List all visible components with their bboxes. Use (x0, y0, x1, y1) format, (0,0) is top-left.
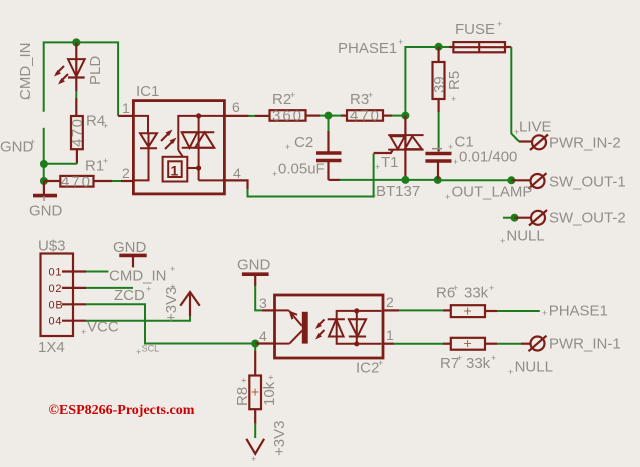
net label PHASE1 top (338, 37, 403, 57)
svg-text:10k: 10k (261, 381, 278, 406)
svg-text:04: 04 (49, 316, 63, 328)
svg-text:+: + (464, 303, 472, 319)
junction node R3/T1 (401, 112, 409, 120)
pin 3 label IC2 (259, 295, 267, 311)
svg-text:0.05uF: 0.05uF (278, 161, 325, 178)
svg-text:2: 2 (122, 165, 130, 181)
wire IC1 pin6 to R2 (224, 115, 269, 117)
svg-text:+: + (81, 327, 86, 337)
svg-text:+: + (26, 93, 31, 103)
ground symbol GND bottom-left (29, 181, 63, 220)
svg-text:+: + (285, 142, 290, 152)
junction node SW_OUT-1 (507, 176, 515, 184)
ground symbol GND near connector (113, 239, 147, 267)
svg-text:33k: 33k (466, 355, 491, 372)
net label OUT_LAMP (445, 184, 532, 203)
svg-text:OUT_LAMP: OUT_LAMP (452, 184, 533, 201)
svg-text:+: + (170, 264, 175, 274)
wire CMD_IN top (44, 42, 118, 116)
svg-text:+: + (497, 19, 502, 29)
svg-text:C2: C2 (294, 134, 313, 151)
svg-text:FUSE: FUSE (455, 21, 495, 38)
svg-text:SCL: SCL (142, 344, 160, 354)
svg-text:+3V3: +3V3 (271, 421, 288, 456)
svg-text:+: + (489, 283, 494, 293)
wire SW_OUT-2 stub (503, 217, 515, 219)
svg-text:PHASE1: PHASE1 (549, 303, 608, 320)
svg-text:0.01/400: 0.01/400 (459, 149, 517, 166)
IC1 zero-cross box with 1 (163, 157, 199, 182)
net label CMD_IN bottom (109, 264, 175, 285)
svg-text:470: 470 (61, 174, 92, 191)
wire PHASE1 to fuse (405, 47, 438, 116)
wire IC1 pin4 to T1 gate (224, 150, 393, 197)
supply symbol +3V3 down arrow (246, 421, 288, 464)
svg-text:LIVE: LIVE (519, 119, 552, 136)
capacitor C2 (272, 116, 342, 180)
junction node C1 bottom (434, 176, 442, 184)
svg-text:GND: GND (113, 239, 147, 256)
svg-text:+: + (251, 384, 259, 400)
pin 2 label IC2 (386, 294, 394, 310)
ground symbol GND above IC2 (237, 257, 271, 287)
wire rail to SW_OUT-1 (438, 179, 512, 181)
svg-text:+: + (464, 335, 472, 351)
svg-text:1: 1 (386, 327, 394, 343)
svg-text:2: 2 (386, 294, 394, 310)
svg-text:VCC: VCC (87, 319, 119, 336)
wire GND to IC2 pin3 (255, 286, 274, 310)
svg-text:CMD_IN: CMD_IN (17, 42, 34, 100)
svg-text:R8: R8 (234, 387, 251, 406)
svg-text:1X4: 1X4 (38, 339, 65, 356)
svg-text:PWR_IN-1: PWR_IN-1 (549, 336, 621, 353)
LED PLD (54, 42, 104, 116)
svg-text:470: 470 (350, 108, 381, 125)
net label NULL bottom (508, 359, 553, 378)
junction node R2/R3/C2 (325, 112, 333, 120)
wire pin4 stub (255, 342, 274, 344)
pin 4 label IC2 (259, 328, 267, 344)
svg-text:+: + (136, 347, 141, 357)
connector U$3 (38, 238, 86, 357)
svg-text:+: + (368, 90, 373, 100)
svg-text:470: 470 (69, 117, 86, 147)
svg-text:IC1: IC1 (136, 83, 159, 100)
junction node SW_OUT-2 (511, 214, 519, 222)
svg-text:CMD_IN: CMD_IN (109, 268, 167, 285)
junction node IC2 pin4 / R8 (251, 340, 259, 348)
net label NULL top (500, 228, 545, 247)
svg-text:+: + (375, 162, 380, 172)
triac T1 (371, 116, 424, 201)
svg-text:GND: GND (0, 139, 34, 156)
pin 4 label IC1 (233, 165, 241, 181)
svg-text:ZCD: ZCD (114, 287, 145, 304)
net label SCL (136, 344, 159, 358)
wire CMD_IN from pin 01 (86, 271, 108, 273)
svg-text:R3: R3 (350, 91, 369, 108)
svg-text:+: + (514, 127, 519, 137)
resistor R3 (329, 90, 406, 125)
svg-text:GND: GND (237, 257, 271, 274)
pin 6 label IC1 (232, 99, 240, 115)
wire C2 bottom rail (329, 179, 406, 181)
svg-text:+: + (457, 353, 462, 363)
terminal SW_OUT-2 (515, 210, 626, 227)
svg-text:IC2: IC2 (356, 360, 379, 377)
net label CMD_IN (17, 42, 34, 103)
svg-text:R5: R5 (446, 71, 463, 90)
svg-text:R2: R2 (272, 91, 291, 108)
svg-text:+: + (445, 192, 450, 202)
copyright text (49, 403, 195, 418)
svg-text:+: + (491, 353, 496, 363)
junction node fuse/R5 (435, 43, 443, 51)
svg-text:NULL: NULL (515, 359, 553, 376)
junction node R1/GND (40, 177, 48, 185)
op-amp IC1 box (133, 83, 224, 194)
terminal PWR_IN-2 (530, 135, 621, 152)
resistor R5 (431, 47, 463, 112)
net label VCC (81, 319, 119, 338)
svg-text:+3V3: +3V3 (163, 287, 180, 322)
resistor R8 (234, 344, 278, 424)
terminal PWR_IN-1 (529, 336, 621, 353)
svg-text:01: 01 (49, 267, 63, 279)
svg-text:T1: T1 (381, 154, 399, 171)
wire R4 to GND (44, 163, 77, 165)
svg-text:+: + (251, 454, 256, 464)
svg-text:+: + (453, 283, 458, 293)
svg-text:SW_OUT-1: SW_OUT-1 (549, 174, 626, 191)
svg-text:+: + (30, 137, 35, 147)
resistor R7 (440, 335, 530, 372)
svg-text:+: + (453, 157, 458, 167)
wire pin1 stub IC1 (118, 115, 133, 117)
svg-text:3: 3 (259, 295, 267, 311)
net label LIVE (514, 119, 552, 138)
junction node R4/GND (40, 160, 48, 168)
svg-text:33k: 33k (464, 285, 489, 302)
supply symbol +3V3 up arrow (163, 284, 200, 322)
wire IC2 pin1 to R7 (383, 343, 451, 345)
svg-text:R1: R1 (85, 158, 104, 175)
svg-text:BT137: BT137 (376, 183, 420, 200)
svg-text:+: + (542, 308, 547, 318)
svg-text:+: + (272, 169, 277, 179)
resistor R1 (60, 156, 133, 191)
svg-text:4: 4 (259, 328, 267, 344)
svg-text:6: 6 (232, 99, 240, 115)
capacitor C1 (425, 112, 517, 180)
IC2 phototransistor (275, 310, 308, 343)
wire VCC from pin 04 (86, 316, 190, 321)
IC1 internal triac (178, 113, 224, 180)
svg-text:+: + (398, 37, 403, 47)
pin 2 label IC1 (122, 165, 130, 181)
IC1 internal LED (133, 116, 157, 180)
svg-text:1: 1 (122, 100, 130, 116)
svg-text:+: + (103, 121, 108, 131)
pin 1 label IC1 (122, 100, 130, 116)
wire GND to R1 (44, 180, 60, 182)
resistor R6 (436, 283, 540, 319)
svg-text:U$3: U$3 (38, 238, 66, 255)
svg-text:©ESP8266-Projects.com: ©ESP8266-Projects.com (49, 403, 195, 418)
svg-text:+: + (103, 156, 108, 166)
svg-text:+: + (448, 142, 453, 152)
svg-text:PLD: PLD (87, 56, 104, 85)
svg-text:+: + (451, 94, 456, 104)
pin 1 label IC2 (386, 327, 394, 343)
svg-text:360: 360 (272, 108, 303, 125)
svg-text:0B: 0B (49, 299, 64, 311)
svg-text:NULL: NULL (506, 228, 544, 245)
wire IC2 pin2 to R6 (383, 309, 451, 311)
resistor R4 (69, 113, 108, 164)
wire SCL from pin 0B to IC2 (86, 304, 255, 343)
wire T1 to C1 rail (405, 179, 437, 181)
svg-text:PWR_IN-2: PWR_IN-2 (549, 135, 621, 152)
svg-text:+: + (508, 367, 513, 377)
IC1 light arrows (161, 130, 177, 150)
svg-text:+: + (239, 378, 249, 383)
fuse FUSE (439, 19, 512, 52)
svg-text:+: + (168, 284, 178, 289)
IC2 back-to-back diodes (328, 308, 382, 346)
svg-text:+: + (266, 375, 276, 380)
optocoupler IC2 box (275, 295, 384, 377)
svg-text:PHASE1: PHASE1 (338, 40, 397, 57)
net label ZCD (114, 284, 151, 304)
svg-text:+: + (500, 236, 505, 246)
wire ZCD from pin 02 (86, 287, 133, 289)
junction node LED top (72, 38, 80, 46)
svg-text:4: 4 (233, 165, 241, 181)
svg-text:1: 1 (171, 163, 179, 179)
resistor R2 (270, 90, 329, 125)
net label PHASE1 bottom (542, 303, 608, 320)
wire fuse to PWR_IN-2 (511, 47, 531, 142)
svg-text:02: 02 (49, 283, 63, 295)
net label GND left (0, 137, 35, 156)
IC2 light arrows (315, 320, 325, 340)
svg-text:SW_OUT-2: SW_OUT-2 (549, 210, 626, 227)
svg-text:+: + (146, 284, 151, 294)
svg-text:+: + (290, 90, 295, 100)
wire GND stub (43, 128, 45, 181)
terminal SW_OUT-1 (511, 173, 625, 190)
svg-text:GND: GND (29, 203, 63, 220)
svg-text:+: + (378, 358, 383, 368)
junction node T1/C2 rail (401, 176, 409, 184)
